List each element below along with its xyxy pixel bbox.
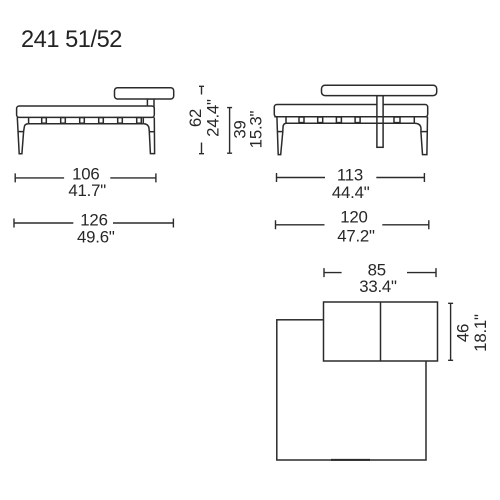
svg-text:46: 46 [454, 324, 473, 342]
big square seat plan [277, 320, 426, 460]
rail lines right bench [274, 117, 427, 124]
dim 62 line [199, 86, 204, 153]
right leg left bench [143, 117, 154, 153]
dim 113 line [277, 173, 425, 182]
seat right bench [274, 105, 427, 117]
rail left bench [29, 117, 144, 123]
post left bench [147, 99, 154, 107]
svg-text:62: 62 [186, 109, 205, 127]
svg-text:24.4": 24.4" [204, 99, 223, 137]
right leg right bench [414, 117, 427, 155]
svg-text:126: 126 [80, 210, 107, 229]
svg-text:18.1": 18.1" [471, 314, 490, 352]
svg-text:44.4": 44.4" [332, 183, 370, 202]
divider tablet plan [380, 302, 382, 361]
svg-text:33.4": 33.4" [359, 277, 397, 296]
dim 120 line [276, 220, 429, 229]
dim 46 line [448, 303, 453, 360]
svg-text:47.2": 47.2" [337, 226, 375, 245]
svg-text:113: 113 [337, 166, 363, 185]
dim 39 line [227, 108, 232, 154]
left leg right bench [277, 117, 287, 155]
rail squares right bench [299, 117, 400, 123]
svg-text:120: 120 [340, 208, 367, 227]
svg-text:15.3": 15.3" [247, 110, 266, 148]
svg-text:241 51/52: 241 51/52 [21, 27, 122, 53]
rail squares left bench [42, 118, 142, 124]
tablet right bench [322, 85, 437, 95]
small rect tablet plan [324, 302, 438, 361]
left leg left bench [17, 117, 28, 153]
seat left bench [17, 106, 155, 117]
post right bench [377, 96, 383, 148]
bottom mark [331, 459, 370, 461]
svg-text:49.6": 49.6" [77, 228, 115, 247]
dim 126 line [14, 219, 173, 228]
dim 106 line [15, 173, 156, 182]
tablet left bench [115, 88, 174, 99]
dim 85 line [324, 268, 436, 277]
svg-text:41.7": 41.7" [68, 181, 106, 200]
